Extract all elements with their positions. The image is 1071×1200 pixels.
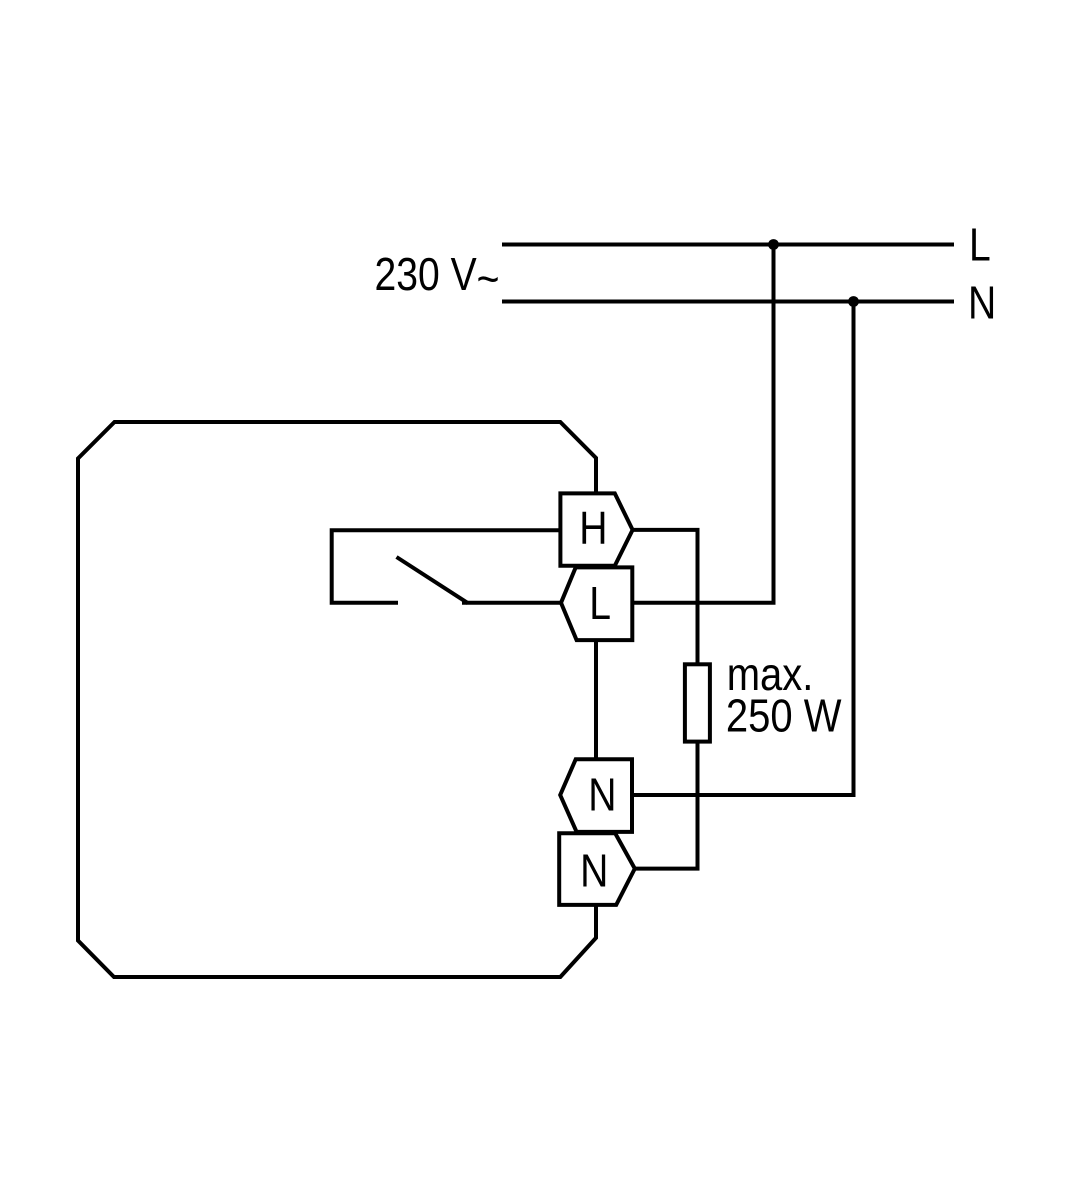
svg-text:L: L — [969, 219, 991, 271]
wire from N junction down to N terminal — [632, 302, 854, 796]
svg-text:N: N — [968, 278, 996, 330]
svg-text:250 W: 250 W — [726, 691, 842, 742]
resistor load max 250 W — [685, 664, 710, 741]
svg-text:N: N — [580, 845, 608, 897]
wire switch top connection to H terminal — [332, 530, 561, 603]
svg-text:H: H — [579, 503, 607, 555]
wire N supply line — [502, 300, 954, 304]
terminal H — [560, 493, 632, 565]
svg-text:230 V~: 230 V~ — [375, 249, 500, 305]
terminal N lower — [559, 833, 635, 905]
wire L supply line — [502, 243, 954, 247]
junction dot on L line — [768, 239, 779, 250]
terminal L — [561, 567, 632, 640]
terminal N upper — [560, 759, 632, 832]
svg-text:L: L — [589, 578, 611, 630]
svg-text:N: N — [588, 769, 616, 821]
switch S1 blade (open) — [397, 557, 469, 603]
wire switch output to L terminal point — [462, 601, 561, 605]
device outline (thermostat body, chamfered octagon) — [78, 422, 596, 977]
wire load resistor bottom to N terminal point — [635, 742, 698, 869]
junction dot on N line — [848, 296, 859, 307]
wire H terminal to load resistor top — [633, 530, 698, 664]
wire from L junction down to L terminal — [632, 245, 773, 603]
